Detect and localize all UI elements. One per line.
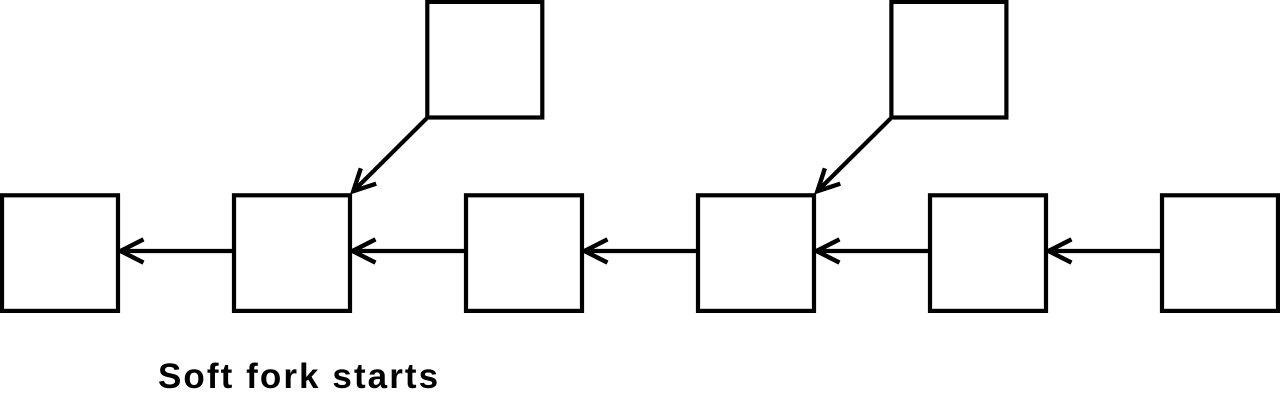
arrow B2 to B1 — [121, 239, 235, 262]
block B6 (main chain, rightmost) — [1162, 195, 1278, 311]
block B2 (main chain) — [234, 195, 350, 311]
arrow B3 to B2 — [353, 239, 467, 262]
label "Soft fork starts" — [158, 357, 440, 396]
arrow S1 to B2 (diagonal) — [353, 119, 426, 192]
arrow B5 to B4 — [817, 239, 931, 262]
svg-text:Soft fork starts: Soft fork starts — [158, 357, 440, 396]
arrow S2 to B4 (diagonal) — [817, 119, 890, 192]
block B5 (main chain) — [930, 195, 1046, 311]
block B4 (main chain) — [698, 195, 814, 311]
arrow B6 to B5 — [1049, 239, 1163, 262]
block B3 (main chain) — [466, 195, 582, 311]
stale block S1 (top left) — [427, 2, 542, 118]
arrow B4 to B3 — [585, 239, 699, 262]
block B1 (main chain, leftmost) — [2, 195, 118, 311]
stale block S2 (top right) — [891, 2, 1006, 118]
